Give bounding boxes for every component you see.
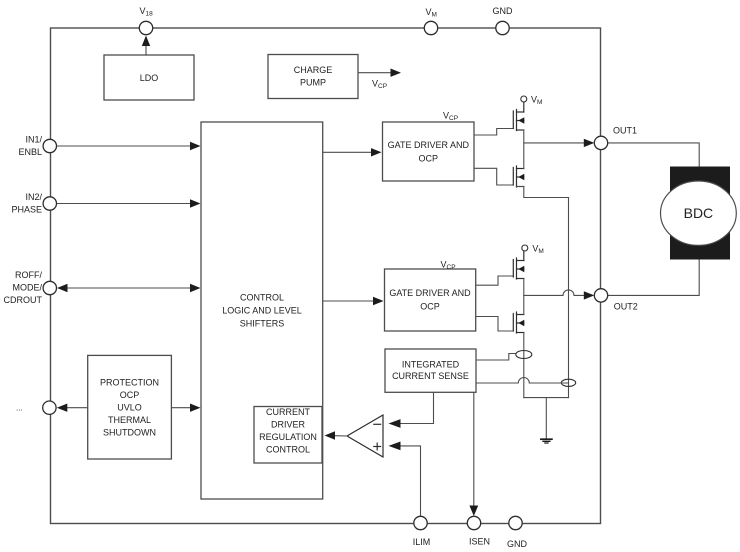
- terminal VM top: [424, 21, 437, 34]
- wire: ground tap: [545, 398, 547, 439]
- svg-text:V18: V18: [140, 6, 154, 18]
- label VM top: [426, 7, 437, 19]
- protection block: [88, 355, 172, 459]
- svg-text:BDC: BDC: [684, 205, 714, 221]
- BDC motor body: [670, 167, 730, 260]
- svg-text:MODE/: MODE/: [12, 282, 42, 292]
- charge pump block: [268, 55, 358, 99]
- label ILIM: [413, 537, 431, 547]
- wire: bridge1 column VM to OUT1 node to Q2 drain: [523, 130, 525, 169]
- label IN1/ENBL: [18, 134, 42, 157]
- wire: control logic to gate driver 1: [323, 151, 373, 153]
- svg-text:GATE DRIVER AND: GATE DRIVER AND: [389, 288, 471, 298]
- op-amp comparator: [347, 415, 383, 457]
- label VCP1 above gate driver 1: [443, 111, 458, 123]
- label ISEN: [469, 537, 490, 547]
- current sense element oval1: [516, 351, 532, 359]
- svg-text:GATE DRIVER AND: GATE DRIVER AND: [388, 140, 470, 150]
- terminal ROFF/MODE/CDROUT: [43, 281, 56, 294]
- gate driver 2 block: [385, 269, 476, 331]
- wire: pin4 to protection block (arrow left): [66, 407, 88, 409]
- svg-text:THERMAL: THERMAL: [108, 415, 151, 425]
- wire: gate driver1 upper gate: [474, 129, 513, 136]
- svg-text:UVLO: UVLO: [117, 402, 142, 412]
- gate driver 1 block: [383, 122, 475, 181]
- svg-text:CHARGE: CHARGE: [294, 65, 333, 75]
- wire: ROFF/MODE/CDROUT bidirectional to control logic: [66, 287, 191, 289]
- label OUT1: [613, 126, 637, 136]
- svg-text:ROFF/: ROFF/: [15, 270, 42, 280]
- svg-text:ISEN: ISEN: [469, 537, 490, 547]
- ground symbol: [541, 439, 552, 443]
- wire: current sense to oval2 with hop: [476, 378, 568, 383]
- label VCP2 above gate driver 2: [441, 260, 456, 272]
- svg-text:SHIFTERS: SHIFTERS: [240, 319, 285, 329]
- svg-text:VM: VM: [426, 7, 437, 19]
- terminal V18: [139, 21, 152, 34]
- wire: ISEN arrow down from current sense box: [473, 392, 475, 506]
- svg-text:DRIVER: DRIVER: [271, 420, 306, 430]
- wire: current sense to comparator minus input: [400, 392, 434, 423]
- label GND bottom: [507, 539, 528, 549]
- terminal VM1 circle: [521, 96, 527, 102]
- label IN2/PHASE: [11, 192, 42, 215]
- terminal IN1/ENBL: [43, 139, 56, 152]
- label GND top: [493, 6, 514, 16]
- wire: IN2 to control logic: [57, 203, 193, 205]
- svg-text:CONTROL: CONTROL: [266, 444, 310, 454]
- transistor Q2 low-side bridge1: [513, 166, 524, 187]
- comparator plus sign: [374, 446, 381, 448]
- integrated current sense block: [385, 349, 476, 392]
- svg-text:OCP: OCP: [120, 390, 140, 400]
- wire: Q4 source down to sense oval1: [523, 333, 525, 398]
- terminal IN2/PHASE: [43, 197, 56, 210]
- svg-text:LDO: LDO: [140, 73, 159, 83]
- wire: current sense to oval1: [476, 354, 515, 361]
- wire: control logic to gate driver 2: [323, 300, 375, 302]
- transistor Q1 high-side bridge1: [513, 102, 524, 131]
- wire: IN1 to control logic: [57, 145, 193, 147]
- svg-text:CURRENT: CURRENT: [266, 407, 311, 417]
- transistor Q3 high-side bridge2: [513, 251, 524, 279]
- svg-text:OUT1: OUT1: [613, 126, 637, 136]
- terminal GND top: [496, 21, 509, 34]
- svg-text:LOGIC AND LEVEL: LOGIC AND LEVEL: [222, 306, 302, 316]
- wire: bridge2 column node: [523, 279, 525, 315]
- wire: OUT1 from bridge1 node: [524, 142, 584, 144]
- svg-text:CDROUT: CDROUT: [4, 295, 43, 305]
- svg-text:ENBL: ENBL: [18, 147, 42, 157]
- label VM2: [532, 244, 543, 256]
- wire: LDO to V18 terminal (arrow up): [145, 45, 147, 55]
- svg-text:OCP: OCP: [419, 154, 439, 164]
- terminal VM2 circle: [522, 245, 528, 251]
- svg-text:PROTECTION: PROTECTION: [100, 377, 159, 387]
- terminal OUT1: [594, 136, 607, 149]
- wire: gate driver2 upper gate: [476, 276, 514, 285]
- wire: protection block to control logic (arrow right): [171, 407, 191, 409]
- wire: comparator output to current driver regulation control: [334, 435, 347, 437]
- current driver regulation control block: [254, 407, 322, 464]
- label V18: [140, 6, 154, 18]
- terminal pin4: [43, 401, 56, 414]
- BDC motor wire from OUT2: [608, 260, 700, 296]
- svg-text:CONTROL: CONTROL: [240, 293, 284, 303]
- terminal ISEN: [467, 516, 480, 529]
- wire: Q2 source down and right to sense column: [517, 187, 569, 398]
- svg-text:PHASE: PHASE: [11, 204, 42, 214]
- svg-text:ILIM: ILIM: [413, 537, 431, 547]
- svg-text:IN1/: IN1/: [25, 134, 42, 144]
- current sense element oval2: [561, 379, 575, 386]
- svg-text:IN2/: IN2/: [25, 192, 42, 202]
- terminal OUT2: [594, 289, 607, 302]
- LDO block: [104, 55, 194, 100]
- comparator minus sign: [374, 423, 381, 425]
- svg-text:SHUTDOWN: SHUTDOWN: [103, 427, 156, 437]
- svg-text:GND: GND: [493, 6, 514, 16]
- BDC motor wire from OUT1: [608, 143, 700, 167]
- wire: OUT2 from bridge2 node with hop over sense column: [524, 290, 584, 296]
- wire: gate driver2 lower gate: [476, 317, 514, 332]
- wire: ILIM to comparator plus input: [400, 446, 421, 516]
- svg-text:...: ...: [16, 404, 23, 413]
- label VM1: [531, 95, 542, 107]
- wire: gate driver1 lower gate: [474, 168, 513, 185]
- control logic block: [201, 122, 323, 499]
- svg-text:REGULATION: REGULATION: [259, 432, 317, 442]
- svg-text:OUT2: OUT2: [614, 302, 638, 312]
- svg-text:OCP: OCP: [420, 302, 440, 312]
- svg-text:GND: GND: [507, 539, 528, 549]
- wire: ground rail: [524, 397, 569, 399]
- transistor Q4 low-side bridge2: [513, 312, 524, 333]
- svg-text:PUMP: PUMP: [300, 78, 326, 88]
- label ROFF/MODE/CDROUT: [4, 270, 43, 305]
- svg-text:INTEGRATED: INTEGRATED: [402, 360, 460, 370]
- terminal ILIM: [414, 516, 427, 529]
- faint label dots pin4: [16, 404, 23, 413]
- wire: charge pump VCP output arrow: [358, 72, 391, 74]
- IC outer boundary box: [51, 28, 601, 524]
- terminal GND bottom: [509, 516, 522, 529]
- label OUT2: [614, 302, 638, 312]
- label VCP at charge pump arrow: [372, 79, 387, 91]
- svg-text:CURRENT SENSE: CURRENT SENSE: [392, 371, 469, 381]
